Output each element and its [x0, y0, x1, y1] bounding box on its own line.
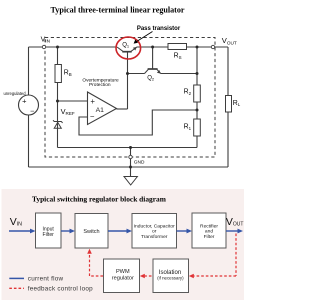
svg-text:Q2: Q2: [147, 76, 155, 82]
svg-text:Pass transistor: Pass transistor: [137, 26, 181, 32]
svg-text:Typical three-terminal linear: Typical three-terminal linear regulator: [50, 6, 184, 15]
svg-text:unregulated: unregulated: [3, 91, 26, 96]
svg-text:−: −: [90, 112, 95, 121]
svg-text:or: or: [152, 229, 157, 235]
svg-text:Typical switching regulator bl: Typical switching regulator block diagra…: [32, 194, 167, 203]
svg-text:and: and: [205, 229, 213, 235]
svg-text:current flow: current flow: [28, 275, 64, 282]
svg-text:Filter: Filter: [43, 232, 55, 238]
svg-text:+: +: [90, 97, 95, 106]
svg-text:A1: A1: [96, 107, 105, 114]
svg-text:GND: GND: [134, 159, 145, 165]
svg-text:feedback control loop: feedback control loop: [28, 285, 93, 292]
svg-text:Rectifier: Rectifier: [200, 223, 218, 229]
svg-text:Q1: Q1: [122, 42, 130, 48]
svg-text:PWM: PWM: [116, 269, 130, 275]
svg-text:Transformer: Transformer: [141, 234, 168, 240]
svg-text:regulator: regulator: [112, 275, 134, 281]
svg-text:+: +: [22, 96, 27, 105]
svg-text:Switch: Switch: [83, 229, 99, 235]
svg-text:Filter: Filter: [204, 234, 215, 240]
svg-text:Protection: Protection: [89, 82, 111, 88]
svg-text:(if necessary): (if necessary): [157, 275, 184, 280]
svg-text:−: −: [30, 106, 35, 115]
svg-text:Inductor, Capacitor: Inductor, Capacitor: [134, 223, 175, 229]
